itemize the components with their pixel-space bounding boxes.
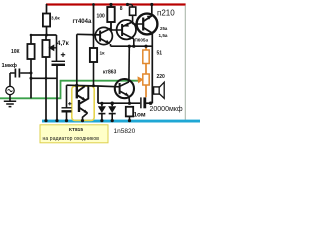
svg-text:1n5820: 1n5820	[114, 128, 136, 135]
green signal wire	[0, 81, 138, 99]
diode line H103	[98, 102, 140, 104]
wire pot bottom to cyan rail	[45, 57, 47, 121]
node 1mkf junction	[30, 72, 33, 75]
resistor 1om	[126, 107, 133, 117]
node D1	[100, 102, 103, 105]
capacitor 20000mkf	[140, 97, 142, 108]
resistor 1k	[90, 48, 97, 62]
wire 1k bottom to node	[93, 62, 95, 86]
base line B	[77, 33, 100, 36]
svg-text:на радиатор оходников: на радиатор оходников	[43, 136, 100, 142]
power rail (red, +)	[46, 3, 186, 5]
transistor VT3 p210	[137, 14, 158, 35]
wiper wire vertical	[56, 35, 58, 61]
node D2	[110, 102, 114, 106]
wiper arrow	[50, 46, 57, 50]
plus capB	[68, 102, 71, 105]
wire H78	[31, 77, 57, 79]
wire VT3 top to rail	[151, 4, 153, 16]
svg-text:КТ815: КТ815	[69, 127, 83, 133]
wire resistor100 to rail	[110, 4, 112, 7]
base bus y85	[67, 85, 120, 87]
svg-text:1мкф: 1мкф	[2, 62, 17, 69]
svg-text:п210: п210	[157, 9, 175, 18]
svg-text:10К: 10К	[11, 49, 21, 55]
node bias left	[30, 34, 33, 37]
svg-text:4,7к: 4,7к	[57, 40, 70, 47]
wire branch down to diode line	[97, 86, 99, 103]
wire rail to R 3,6k	[46, 4, 48, 14]
node rail/base wire	[92, 3, 95, 6]
label box bottom	[40, 125, 108, 143]
ground	[4, 101, 16, 106]
transistor VT5	[115, 79, 134, 98]
svg-text:кт863: кт863	[103, 70, 117, 76]
svg-text:25а: 25а	[160, 26, 168, 31]
svg-text:1к: 1к	[100, 51, 106, 57]
node VT5 emitter/1om	[128, 102, 131, 105]
node base line / 1k	[92, 34, 95, 37]
wire left chain down	[30, 35, 32, 44]
potentiometer 4,7k	[42, 40, 49, 57]
node H2/orange	[144, 45, 147, 48]
wire pot chain top	[45, 35, 47, 40]
plus sign	[61, 53, 65, 58]
resistor 100	[107, 7, 114, 22]
wire VT1 emitter to H2	[110, 44, 112, 46]
wire collector VT1 up	[110, 22, 112, 28]
wire collector VT1 to base VT2	[111, 22, 121, 30]
darlington VT4a	[76, 86, 78, 98]
wire VT2 collector down	[133, 39, 135, 46]
wire R3,6k to bias line	[46, 27, 48, 36]
resistor 220 (orange)	[143, 74, 149, 85]
wiper arrow (orange) into rheostat	[134, 76, 144, 83]
orange rheostat chain wire	[145, 46, 147, 98]
wire down to 1k	[93, 35, 95, 48]
node rail/VT3	[150, 3, 153, 6]
wire darlington emitter to cyan	[83, 113, 88, 121]
svg-text:3,6к: 3,6к	[51, 16, 60, 21]
wire capB chain	[66, 85, 68, 107]
capacitor B plates	[62, 107, 72, 109]
capacitor C +, plates	[52, 60, 66, 62]
transistor VT2	[117, 20, 136, 39]
node H2/collector VT5	[128, 45, 131, 48]
capacitor 1mkf	[10, 72, 31, 74]
node cap chain on cyan	[55, 119, 58, 122]
emitter line H2	[111, 45, 153, 47]
wire corner down to darlington base	[76, 34, 78, 85]
wire VT2 emitter up to resistor 8	[132, 15, 134, 21]
svg-text:П605а: П605а	[135, 38, 149, 43]
node rail/100	[109, 3, 112, 6]
node pot/H78	[45, 77, 48, 80]
hook wire rail to resistor 8	[128, 4, 133, 7]
wire rail down to base line	[93, 5, 95, 35]
speaker	[154, 87, 160, 94]
transistor VT1 gt404a	[95, 27, 112, 44]
node H78 junction	[30, 77, 33, 80]
right thin wire	[184, 6, 187, 120]
wire source to ground	[9, 95, 11, 101]
wire cap to source	[9, 73, 11, 86]
AC source G1	[6, 86, 14, 94]
svg-text:1,5а: 1,5а	[159, 33, 168, 38]
node H2/VT2	[132, 45, 135, 48]
resistor 10K	[27, 44, 34, 59]
resistor R 3,6k	[43, 14, 50, 27]
node darlington base	[75, 84, 78, 87]
wire VT5 emitter down	[128, 96, 131, 103]
darlington VT4b	[78, 100, 80, 112]
resistor 8	[130, 7, 136, 15]
ground rail (cyan)	[42, 120, 200, 123]
diode D1	[98, 106, 106, 113]
node rail hook	[126, 3, 129, 6]
bias line A	[31, 34, 57, 36]
svg-text:20000мкф: 20000мкф	[150, 106, 183, 113]
svg-text:1ом: 1ом	[134, 111, 146, 118]
wire VT2 node to VT3 base	[133, 22, 143, 24]
node pot on cyan	[44, 119, 47, 122]
node bias/3,6k	[45, 34, 48, 37]
darlington highlight box	[72, 86, 94, 120]
resistor 51 (orange)	[143, 50, 149, 64]
wire cap bottom down to cyan	[56, 65, 58, 121]
node speaker/cap	[149, 102, 152, 105]
svg-text:8: 8	[120, 6, 123, 12]
svg-text:51: 51	[157, 51, 163, 57]
diode D2	[108, 106, 116, 113]
wire VT3 emitter down (speaker wire)	[151, 33, 153, 103]
svg-text:гт404а: гт404а	[73, 19, 92, 25]
wire 10K bottom down to green node	[30, 59, 32, 98]
svg-text:220: 220	[157, 74, 166, 80]
wire VT5 collector up to H2	[128, 46, 130, 82]
svg-text:100: 100	[97, 14, 106, 20]
